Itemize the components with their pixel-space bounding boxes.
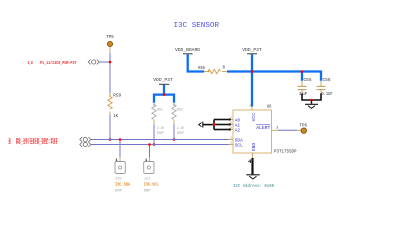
resistor R61 pin1 dot — [153, 104, 154, 105]
svg-text:C55: C55 — [304, 79, 313, 83]
svg-text:I3C_SDA: I3C_SDA — [115, 184, 130, 188]
resistor R62 stub top — [173, 103, 175, 105]
resistor R56 pin1 dot — [208, 71, 210, 73]
junction J20 SDA — [119, 138, 122, 141]
svg-text:I3C SENSOR: I3C SENSOR — [174, 22, 220, 30]
wire VDD_BOARD to R56 — [188, 54, 204, 71]
testpoint TP6 — [301, 128, 306, 133]
resistor R62 (DNP) — [172, 105, 176, 120]
svg-text:2.2K: 2.2K — [177, 127, 185, 131]
capacitor C56 stub top — [320, 81, 322, 86]
pin stub A0 — [229, 119, 233, 121]
svg-text:VDD_P3T: VDD_P3T — [242, 47, 262, 53]
capacitor C56 — [317, 86, 326, 89]
svg-text:I3C_SCL: I3C_SCL — [144, 184, 159, 188]
wire J20 drop — [119, 140, 121, 158]
wire R62 to SDA bus — [173, 125, 175, 140]
svg-text:J20: J20 — [115, 178, 122, 182]
wire ALERT to TP6 — [278, 129, 297, 131]
junction node PUR — [109, 61, 112, 64]
junction pullup bracket — [163, 93, 166, 96]
pin stub VCC — [251, 107, 253, 111]
pin dot A2 — [229, 128, 231, 130]
svg-text:DNP: DNP — [177, 132, 185, 136]
wire pullup bracket — [154, 95, 174, 103]
connector J21 pin stub — [149, 157, 151, 162]
svg-text:ALERT: ALERT — [256, 125, 270, 131]
wire J21 drop — [149, 145, 151, 158]
svg-text:VCC: VCC — [251, 113, 257, 122]
resistor R61 stub bottom — [153, 120, 155, 125]
pin stub GND — [252, 153, 254, 158]
resistor R56 — [208, 69, 221, 73]
pin dot A0 — [229, 118, 231, 120]
ground symbol A-pins (left arrow) — [199, 122, 203, 128]
svg-text:2.2K: 2.2K — [157, 127, 165, 131]
pin stub A2 — [229, 129, 233, 131]
junction R62 SDA — [173, 138, 176, 141]
wire GND to ground — [251, 158, 253, 174]
resistor R56 stub right — [222, 71, 227, 73]
svg-text:GND: GND — [251, 143, 257, 152]
svg-text:A2: A2 — [235, 129, 241, 134]
svg-text:VDD_BOARD: VDD_BOARD — [175, 47, 200, 53]
pin name ALERT overline — [256, 124, 270, 126]
off-page connector SCL — [80, 142, 91, 147]
ground symbol caps — [305, 104, 318, 108]
power symbol VDD_P3T bar — [247, 53, 257, 55]
svg-text:DNP: DNP — [157, 132, 165, 136]
wire PUR connector to node — [99, 61, 110, 63]
svg-text:DNP: DNP — [115, 190, 123, 194]
power symbol VDD_BOARD bar — [183, 53, 193, 55]
svg-text:3: 3 — [276, 125, 278, 129]
junction R61 SCL — [153, 143, 156, 146]
resistor R61 stub top — [153, 103, 155, 105]
svg-text:TP5: TP5 — [106, 36, 114, 40]
IC U6 box — [233, 110, 272, 153]
ground symbol U6 — [246, 175, 259, 179]
wire SDA bus — [91, 139, 229, 141]
junction cap ground — [310, 99, 313, 102]
junction rail VDD_P3T — [251, 70, 254, 73]
svg-text:1K: 1K — [113, 115, 118, 119]
svg-text:I2C Address: 0x90: I2C Address: 0x90 — [233, 184, 274, 189]
wire R59 to SDA bus — [109, 115, 111, 140]
capacitor C56 stub bottom — [320, 90, 322, 94]
resistor R61 (DNP) — [152, 105, 156, 120]
power symbol VDD_P3T pullups bar — [159, 83, 169, 85]
capacitor C55 — [298, 86, 307, 89]
resistor R59 stub bottom — [109, 112, 111, 116]
wire VDD rail — [227, 72, 321, 81]
svg-text:J21: J21 — [144, 178, 151, 182]
svg-text:P3T1755DP: P3T1755DP — [274, 151, 297, 155]
pin stub SDA — [229, 139, 233, 141]
wire A1 branch — [214, 124, 230, 126]
resistor R59 pin1 dot — [109, 95, 111, 97]
wire cap ground stem — [311, 100, 313, 104]
capacitor C55 wire — [301, 72, 303, 81]
pin stub A1 — [229, 124, 233, 126]
resistor R56 stub left — [204, 71, 208, 73]
capacitor C55 stub top — [301, 81, 303, 86]
off-page connector PUR — [88, 60, 99, 65]
junction A-pin bracket — [213, 123, 216, 126]
wire A-pin bracket vertical — [213, 120, 215, 130]
svg-text:DNP: DNP — [144, 190, 152, 194]
wire VDD_P3T to U6 VCC — [251, 54, 253, 106]
wire TP5 to R59 — [109, 53, 111, 93]
junction rail C55 — [301, 70, 304, 73]
wire SCL bus — [91, 144, 229, 146]
wire VDD_P3T pullups stem — [163, 85, 165, 95]
wire ground to A-pin bracket — [203, 124, 214, 126]
resistor R62 stub bottom — [173, 120, 175, 125]
junction R59 SDA — [109, 138, 112, 141]
svg-text:C56: C56 — [323, 79, 332, 83]
pin dot A1 — [229, 123, 231, 125]
junction J21 SCL — [148, 143, 151, 146]
testpoint TP5 — [107, 41, 112, 46]
svg-text:VDD_P3T: VDD_P3T — [153, 77, 173, 83]
svg-text:R61: R61 — [157, 109, 163, 113]
wire A0 branch — [214, 119, 230, 121]
resistor R59 — [108, 97, 112, 110]
svg-text:3,8: 3,8 — [28, 62, 34, 66]
wire A2 branch — [214, 129, 230, 131]
svg-text:1uF: 1uF — [299, 93, 308, 97]
pin stub TP5 — [109, 47, 111, 53]
svg-text:R56: R56 — [198, 67, 205, 71]
connector J20 pin stub — [119, 157, 121, 162]
connector J20 — [115, 162, 125, 174]
resistor R62 pin1 dot — [173, 104, 174, 105]
resistor R59 stub top — [109, 93, 111, 97]
svg-text:R59: R59 — [113, 94, 122, 98]
capacitor C55 stub bottom — [301, 90, 303, 94]
wire R61 to SCL bus — [153, 125, 155, 145]
pin stub TP6 — [297, 129, 301, 131]
svg-text:P0_17/I3C0_SCL-P3T: P0_17/I3C0_SCL-P3T — [16, 141, 58, 146]
pin stub SCL — [229, 144, 233, 146]
connector J21 — [144, 162, 154, 174]
svg-text:P1_11/I3C0_PUR-P3T: P1_11/I3C0_PUR-P3T — [40, 61, 77, 66]
off-page connector SDA — [80, 137, 91, 142]
svg-text:0.1UF: 0.1UF — [321, 93, 333, 97]
svg-text:U6: U6 — [267, 106, 272, 110]
svg-text:SCL: SCL — [235, 144, 243, 149]
wire capacitor ground bracket — [302, 94, 321, 101]
svg-text:R62: R62 — [177, 109, 183, 113]
pin stub ALERT — [272, 129, 279, 131]
